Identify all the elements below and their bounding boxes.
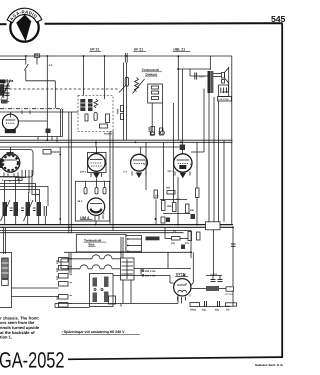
- svg-text:3,5: 3,5: [49, 64, 53, 67]
- svg-text:Radioind. Bach. B. B.: Radioind. Bach. B. B.: [255, 363, 284, 367]
- svg-text:4: 4: [2, 179, 4, 182]
- svg-text:5: 5: [189, 293, 191, 297]
- svg-text:40.6kΩ: 40.6kΩ: [104, 133, 112, 136]
- svg-text:237 V: 237 V: [168, 170, 175, 173]
- svg-text:2: 2: [106, 163, 108, 166]
- svg-text:▪ Spänningar vid anslutning ti: ▪ Spänningar vid anslutning till 240 V: [62, 330, 126, 334]
- svg-text:GA-2052: GA-2052: [0, 348, 65, 373]
- svg-text:5000: 5000: [199, 75, 205, 78]
- svg-text:50μ: 50μ: [215, 309, 220, 312]
- svg-text:5Ω: 5Ω: [35, 54, 38, 57]
- svg-text:UBL 21: UBL 21: [174, 47, 186, 51]
- svg-text:Extrahögt.: Extrahögt.: [218, 98, 229, 101]
- svg-text:5000: 5000: [117, 108, 120, 114]
- svg-text:47k: 47k: [185, 242, 190, 245]
- svg-text:240: 240: [56, 259, 59, 264]
- svg-text:220: 220: [56, 267, 59, 272]
- svg-text:50k: 50k: [166, 187, 171, 190]
- svg-text:88 V: 88 V: [78, 200, 83, 203]
- svg-text:6: 6: [103, 212, 105, 215]
- svg-text:254 V: 254 V: [80, 171, 87, 174]
- svg-text:110: 110: [56, 295, 59, 300]
- svg-text:UF 21: UF 21: [134, 47, 143, 51]
- svg-text:545: 545: [271, 14, 285, 24]
- svg-text:220 V 50~: 220 V 50~: [145, 275, 157, 278]
- svg-text:UF 21: UF 21: [90, 47, 99, 51]
- svg-text:5000: 5000: [148, 126, 151, 132]
- svg-text:220 V 50~: 220 V 50~: [145, 270, 157, 273]
- svg-text:47k: 47k: [171, 242, 176, 245]
- svg-text:150: 150: [56, 275, 59, 280]
- svg-text:400Ω: 400Ω: [190, 309, 196, 312]
- svg-text:tion 1.: tion 1.: [0, 335, 12, 340]
- svg-text:150k: 150k: [167, 205, 173, 208]
- svg-text:1M: 1M: [226, 309, 229, 312]
- svg-text:Diskant: Diskant: [146, 72, 158, 76]
- svg-text:50μ: 50μ: [202, 309, 207, 312]
- svg-text:Bas: Bas: [89, 243, 95, 247]
- svg-text:0 V: 0 V: [124, 171, 128, 174]
- svg-text:1M: 1M: [155, 195, 158, 198]
- svg-text:25k: 25k: [190, 209, 195, 212]
- svg-text:UM 4: UM 4: [80, 216, 90, 220]
- svg-text:3: 3: [144, 163, 146, 166]
- svg-text:100 mA: 100 mA: [225, 293, 234, 296]
